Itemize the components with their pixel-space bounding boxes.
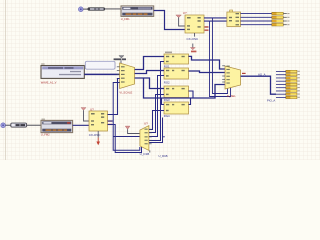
svg-text:RG2: RG2 [164, 80, 170, 84]
wire U2 to connector J1 row4 [241, 24, 272, 26]
stem below U3 [97, 131, 99, 138]
svg-text:U_FM1: U_FM1 [121, 17, 130, 21]
wire OP4 out to mux M3 (bottom path) [189, 98, 191, 105]
wire U3 out down to mux M2 [108, 125, 142, 153]
wire vertical bus drop 2 [210, 21, 231, 96]
wire OP3 out down [189, 91, 194, 98]
oscillator IC U3 [89, 111, 108, 131]
wire vertical bus drop 1 [213, 18, 228, 94]
power VCC4 (bar above U3) [81, 108, 89, 121]
wire mux M2 out to mux M1 pin5 [113, 136, 140, 138]
connector J1 (4-pin, top right) [272, 12, 283, 26]
svg-text:U_D1B: U_D1B [159, 154, 168, 158]
wire feedback vertical to mux M1 pin5 [113, 83, 140, 151]
port P2 (bottom-left blue node) [1, 123, 6, 128]
wire port P2 to probe PR2 [6, 124, 11, 126]
probe PR1 [88, 8, 105, 11]
note text above U_FM2 [42, 119, 45, 120]
svg-text:U?: U? [183, 11, 187, 15]
probe PR2 [11, 123, 27, 127]
wire U2 to connector J1 row3 [241, 20, 272, 22]
opamp stage IC OP1 [164, 54, 189, 64]
svg-text:CX-OSC: CX-OSC [89, 133, 102, 137]
wire M1 out3 to OP3 in [135, 78, 164, 89]
wire U2 to connector J1 row2 [241, 16, 272, 18]
wire U1 to U2 (row 1) [204, 17, 227, 19]
opamp stage IC OP4 [164, 102, 189, 114]
svg-text:WAVE_A1_V: WAVE_A1_V [41, 81, 57, 85]
wire U3 out up to mux M1 pin [108, 79, 120, 115]
svg-text:U?: U? [144, 121, 148, 125]
wire probe PR1 to instrument U_FM1 [105, 8, 121, 10]
annotation box (lavender rounded rect) [85, 61, 115, 69]
pin stub marks U1 right (red) [205, 26, 209, 31]
connector J2 (9-pin, right) [286, 70, 297, 98]
wire U_FM1 out to IC U1 pin [154, 11, 185, 30]
instrument U_SG1 Configurable Signal Generator [41, 66, 84, 79]
note text above OP1 [165, 52, 172, 54]
wire U_FM2 out to IC U3 [73, 124, 89, 126]
wire mux M2 pin5 up [149, 118, 163, 143]
instrument U_FM1 Frequency Meter (top) [121, 6, 154, 17]
pin numbers J2 right [298, 71, 300, 98]
svg-text:AI_SEL: AI_SEL [227, 94, 237, 98]
wire OP2 out to mux M3 [189, 71, 226, 73]
buffer IC U2 [227, 10, 241, 27]
svg-text:PIO_A: PIO_A [267, 99, 275, 103]
svg-text:CX-OSC: CX-OSC [187, 37, 200, 41]
wire OP4 gain to mux M2 [149, 111, 164, 130]
power VCC5 (red, left of mux M2) [125, 126, 140, 133]
wire probe PR2 to instrument U_FM2 [27, 124, 41, 126]
power VCC2 (red, above OP1) [190, 44, 196, 53]
wire M1 out2 to OP2 in [135, 71, 164, 74]
mux M1 (input selector) [117, 63, 135, 89]
wire port P1 to probe PR1 [83, 8, 88, 10]
wire U3 second out to feedback net [108, 120, 114, 122]
wire branch down to OP4 in [162, 98, 165, 105]
oscillator IC U1 [185, 15, 204, 33]
svg-text:VI_SCALE: VI_SCALE [119, 90, 132, 94]
power VCC1 (bar symbol above U1) [176, 15, 185, 26]
pin stub marks M3 (red) [242, 73, 246, 74]
wire U_SG1 out to mux M1 [84, 73, 119, 75]
svg-text:RG4: RG4 [164, 114, 170, 118]
wire U2 to connector J1 row1 [241, 13, 272, 15]
power VCC3 (bar above mux M1) [114, 56, 126, 65]
wire OP1 gain to mux M2 [149, 62, 164, 141]
mux M2 (feedback selector) [140, 126, 152, 151]
wire M1 out3 branch down to mux M3 low pin [144, 78, 226, 98]
pin leads J2 left [276, 71, 286, 97]
port P1 (top-left blue node) [79, 7, 84, 12]
opamp stage IC OP3 [164, 86, 189, 98]
opamp stage IC OP2 [164, 68, 189, 79]
no-connect hook on feedback wire [163, 136, 165, 138]
stem below U1 [194, 33, 196, 37]
wire OP3 gain to mux M2 [149, 95, 164, 133]
instrument U_FM2 Frequency Meter (bottom) [41, 120, 73, 132]
power GND arrow (red, below U3) [96, 138, 100, 146]
svg-text:U_D1B: U_D1B [140, 152, 150, 156]
pin stub marks U3 right (red) [108, 120, 112, 125]
wire OP2 gain to mux M2 [149, 76, 164, 137]
wire OP1 out to mux M3 [189, 56, 226, 69]
pin leads J1 right [283, 13, 289, 25]
svg-text:U_FM2: U_FM2 [41, 133, 50, 137]
wire M1 out1 to OP1 in [135, 57, 164, 70]
wire M3 out to connector J2 [241, 76, 276, 94]
mux M3 (output selector) [222, 66, 240, 89]
note text above U_SG1 [41, 63, 44, 64]
stem below mux M2 [149, 150, 151, 152]
wire U1 to U2 (row 2) [204, 20, 227, 22]
